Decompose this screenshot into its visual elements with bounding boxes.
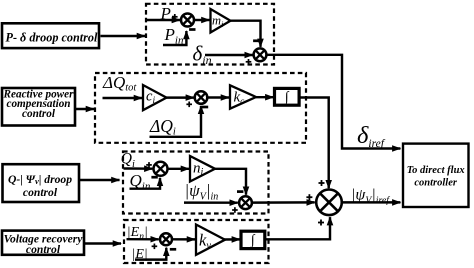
plus sign at J4a bbox=[152, 245, 158, 247]
wire Q_i input bbox=[124, 167, 153, 170]
wire B1 to dashed box 1 bbox=[101, 35, 146, 37]
wire B2 to dashed box 2 bbox=[76, 108, 94, 110]
svg-text:control: control bbox=[23, 186, 58, 199]
wire integrator4 to big junction bbox=[265, 217, 331, 239]
summing junction J3b bbox=[239, 196, 252, 209]
wire Pi input bbox=[147, 19, 180, 21]
integrator box 2 bbox=[275, 88, 300, 105]
wire J4a to k_v bbox=[172, 238, 195, 241]
minus sign at J4a bbox=[170, 248, 176, 251]
minus sign at J1b bbox=[253, 39, 259, 42]
wire |E_n| input bbox=[127, 238, 159, 241]
plus sign at J3a bbox=[146, 164, 152, 166]
summing junction J1b bbox=[254, 48, 267, 61]
gain triangle n_i bbox=[190, 156, 215, 182]
summing junction J4a bbox=[160, 233, 172, 245]
wire m_i to J1b bbox=[230, 21, 261, 47]
wire dQ_tot input bbox=[103, 97, 143, 99]
svg-text:P- δ droop control: P- δ droop control bbox=[6, 30, 99, 44]
wire big junction to controller box bbox=[342, 201, 400, 203]
box "To direct flux controller" bbox=[403, 144, 469, 207]
wire B3 to dashed box 3 bbox=[80, 179, 120, 181]
plus sign at J1b bbox=[246, 61, 252, 63]
wire J2a to k_c bbox=[207, 96, 229, 98]
wire k_c to integrator bbox=[255, 96, 273, 98]
svg-text:control: control bbox=[26, 243, 61, 256]
svg-text:To direct flux: To direct flux bbox=[407, 165, 465, 176]
dashed box 4 (voltage recovery) bbox=[124, 220, 269, 263]
summing junction J2a bbox=[195, 91, 208, 104]
wire n_i to J3b bbox=[214, 169, 246, 195]
svg-text:controller: controller bbox=[414, 178, 457, 189]
wire |psi_v|_in into J3b bbox=[184, 201, 238, 204]
plus sign big junction left bbox=[306, 196, 312, 198]
dashed box 3 (Q-psi droop) bbox=[123, 152, 269, 214]
box "Q-|Psi_v| droop control" bbox=[3, 164, 80, 202]
minus sign at J3b bbox=[237, 190, 243, 193]
svg-text:ΔQi: ΔQi bbox=[149, 116, 176, 138]
gain triangle m_i bbox=[211, 9, 231, 33]
wire J3a to n_i bbox=[168, 168, 190, 170]
integrator box 4 bbox=[241, 231, 265, 248]
wire B4 to dashed box 4 bbox=[85, 242, 122, 244]
wire |E| underline into J4a bbox=[135, 248, 166, 260]
minus sign at J2a bbox=[202, 106, 208, 109]
wire delta_iref : J1b to controller box bbox=[266, 55, 400, 149]
svg-text:Q-| Ψv| droop: Q-| Ψv| droop bbox=[8, 173, 72, 186]
wire Q_in underline into J3a bbox=[130, 178, 161, 189]
gain triangle k_c bbox=[230, 85, 256, 108]
box "P- delta droop control" bbox=[2, 23, 99, 48]
wire integrator2 to big junction bbox=[299, 98, 329, 189]
wire dQ_i underline into J2a bbox=[150, 106, 202, 137]
big summing junction bbox=[316, 190, 342, 216]
wire J3b to big junction bbox=[252, 201, 315, 204]
wire J1a to m_i bbox=[194, 19, 210, 21]
plus sign at J2a bbox=[186, 103, 192, 105]
plus sign at J3b bbox=[232, 209, 238, 211]
plus sign big junction top bbox=[319, 182, 325, 184]
minus sign at J1a bbox=[189, 28, 195, 31]
dashed box 2 (reactive power compensation) bbox=[95, 73, 306, 143]
gain triangle c_i bbox=[143, 85, 167, 110]
plus sign big junction bottom bbox=[318, 222, 324, 224]
summing junction J1a bbox=[181, 14, 194, 27]
box "Reactive power compensation control" bbox=[2, 88, 75, 126]
wire P_in underline into J1a bbox=[163, 31, 186, 45]
svg-text:control: control bbox=[22, 108, 56, 120]
box "Voltage recovery control" bbox=[2, 231, 84, 256]
wire delta_in to J1b bbox=[205, 54, 253, 56]
minus sign at J3a bbox=[151, 176, 157, 179]
summing junction J3a bbox=[154, 162, 168, 176]
wire c_i to J2a bbox=[166, 96, 194, 98]
plus sign at J1a bbox=[172, 16, 178, 18]
wire k_v to integrator 4 bbox=[224, 238, 240, 241]
gain triangle k_v bbox=[196, 225, 225, 255]
dashed box 1 (P-delta droop) bbox=[146, 4, 274, 65]
